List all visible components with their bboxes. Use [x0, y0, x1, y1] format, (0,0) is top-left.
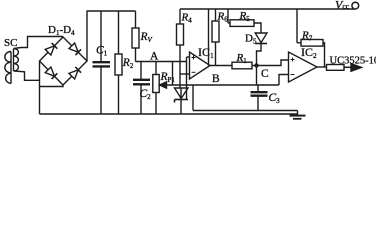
svg-text:IC1: IC1: [198, 45, 214, 60]
wire IC2 inverting feedback loop: [279, 75, 289, 86]
output arrow: [344, 64, 362, 72]
svg-text:A: A: [150, 51, 159, 63]
wire top rail right section (Vcc rail): [180, 8, 355, 10]
svg-text:R1: R1: [236, 52, 248, 65]
svg-text:R4: R4: [181, 12, 193, 25]
svg-text:SC: SC: [4, 37, 17, 49]
svg-text:C3: C3: [269, 92, 281, 105]
capacitor C3: [251, 85, 268, 111]
wire IC1 output line: [210, 65, 232, 67]
svg-text:D5: D5: [245, 33, 257, 46]
wire ground reference line: [192, 85, 194, 111]
output coupling box: [327, 65, 345, 71]
wire IC2 output line: [317, 66, 326, 68]
node C junction dot: [254, 63, 258, 67]
wire node C to IC2 plus input: [257, 60, 289, 66]
svg-text:C2: C2: [140, 88, 152, 101]
resistor R6: [212, 9, 219, 66]
svg-text:R2: R2: [122, 57, 134, 70]
resistor R4: [177, 9, 184, 45]
resistor R5: [228, 9, 261, 33]
bridge diode top-left: [45, 43, 57, 55]
svg-text:Vcc: Vcc: [335, 0, 350, 12]
svg-text:C: C: [261, 68, 269, 80]
diode D5: [255, 33, 267, 64]
op-amp IC2: [289, 52, 318, 82]
svg-text:B: B: [212, 73, 220, 85]
bridge diode bottom-right: [69, 67, 81, 79]
wire R4 to zener top: [179, 45, 181, 88]
wire bridge right vertex up to top rail: [86, 11, 88, 61]
wire IC1 supply from rail: [208, 9, 210, 66]
resistor R1: [232, 62, 257, 69]
wire node A line: [136, 61, 187, 63]
svg-text:R6: R6: [217, 11, 229, 24]
wire wiper-ground line: [166, 84, 279, 86]
transformer SC primary winding: [5, 52, 11, 84]
svg-text:UC3525-10: UC3525-10: [330, 55, 376, 66]
resistor RV: [132, 11, 139, 62]
wire transformer bottom lead: [14, 71, 40, 80]
transformer SC secondary winding: [14, 49, 19, 72]
wire node A to plus input: [186, 57, 188, 100]
bridge diode top-right: [69, 43, 81, 55]
wire top rail left section: [87, 10, 136, 12]
wire IC1 inverting input line: [180, 73, 190, 75]
svg-text:D1-D4: D1-D4: [48, 24, 75, 37]
resistor R7: [297, 9, 325, 67]
potentiometer wiper arrow: [160, 62, 173, 89]
svg-text:RV: RV: [140, 31, 153, 44]
wire bridge left vertex down to bottom rail: [39, 61, 41, 114]
wire bridge bottom vertex to left vertical: [40, 85, 64, 87]
bridge diode bottom-left: [45, 67, 57, 79]
wire bottom rail: [40, 113, 298, 115]
ground: [290, 111, 306, 119]
svg-text:R5: R5: [239, 10, 251, 23]
capacitor C2: [133, 62, 150, 115]
op-amp IC1: [190, 52, 211, 79]
wire transformer top lead: [14, 37, 63, 49]
svg-text:R7: R7: [301, 30, 313, 43]
svg-text:C1: C1: [96, 45, 108, 58]
zener diode: [175, 88, 189, 114]
resistor R2: [115, 11, 122, 114]
capacitor C1: [93, 11, 111, 114]
terminal Vcc: [352, 2, 359, 9]
potentiometer RP1: [153, 62, 159, 115]
bridge rectifier D1-D4 diamond: [40, 37, 88, 85]
svg-text:IC2: IC2: [301, 45, 317, 60]
wire node C down to ground line: [256, 66, 258, 86]
